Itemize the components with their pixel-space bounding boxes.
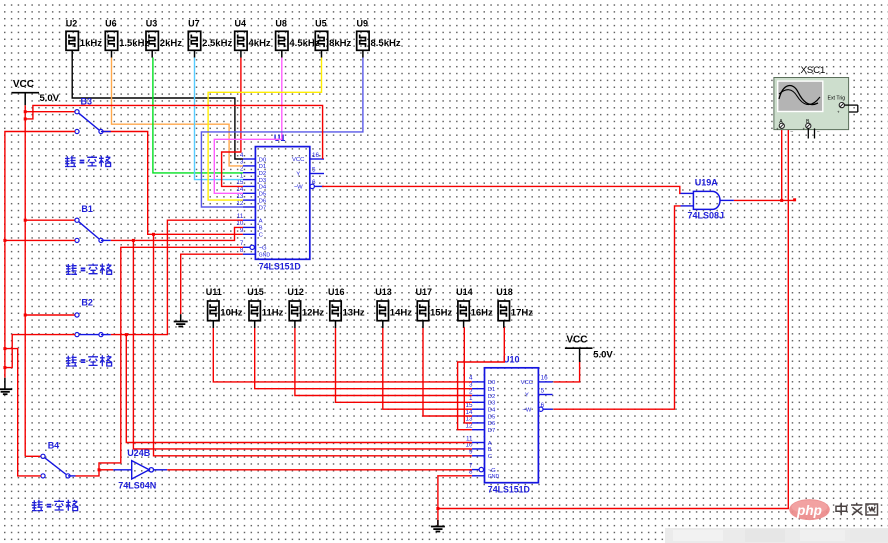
label B1 key bbox=[66, 264, 112, 275]
wire U24B output to U10 ~G bbox=[167, 469, 472, 471]
wire U10 ~W to U19A input B bbox=[554, 206, 681, 409]
wire B1 common to U1 B bbox=[101, 227, 243, 240]
clock source U18 17Hz bbox=[496, 287, 533, 328]
svg-text:D5: D5 bbox=[259, 192, 267, 198]
ground G3 bbox=[431, 520, 445, 532]
svg-text:~G: ~G bbox=[259, 246, 267, 252]
wire B2 to U10 A bbox=[126, 335, 472, 443]
wire VCC to B1 pole bbox=[25, 219, 75, 221]
watermark php logo bbox=[665, 499, 888, 543]
wire U8 to U1 D5 (magenta) bbox=[214, 58, 281, 194]
wire B2 to ground rail bbox=[5, 335, 75, 368]
node junction scope A bbox=[780, 199, 783, 202]
node junction B4-U24B bbox=[98, 468, 101, 471]
svg-text:U11: U11 bbox=[206, 287, 222, 297]
wire VCC to B4 pole bbox=[25, 455, 41, 457]
node junction B1-U10B bbox=[132, 239, 135, 242]
wire U4 to U1 D4 (red) bbox=[222, 58, 243, 187]
svg-text:5.0V: 5.0V bbox=[593, 349, 613, 360]
clock source U15 11Hz bbox=[247, 287, 283, 328]
switch B2 bbox=[75, 297, 103, 336]
node junction B3-U10C bbox=[152, 233, 155, 236]
svg-text:D1: D1 bbox=[488, 387, 496, 393]
wire U19A output to scope A bbox=[734, 199, 795, 201]
svg-text:12Hz: 12Hz bbox=[302, 308, 324, 319]
svg-text:U9: U9 bbox=[357, 18, 369, 28]
svg-text:6: 6 bbox=[312, 179, 316, 186]
svg-text:U15: U15 bbox=[247, 287, 264, 297]
node junction bottom bbox=[436, 507, 439, 510]
svg-text:U8: U8 bbox=[275, 18, 287, 28]
node junction VCC-B1 bbox=[24, 219, 27, 222]
inverter U24B 74LS04N bbox=[113, 448, 167, 490]
svg-text:74LS04N: 74LS04N bbox=[118, 481, 156, 491]
svg-text:5: 5 bbox=[312, 166, 316, 173]
svg-text:GND: GND bbox=[488, 474, 500, 480]
wire U18 to U10 D7 bbox=[458, 328, 505, 430]
svg-text:D0: D0 bbox=[259, 157, 267, 163]
node junction gnd-B1 bbox=[3, 239, 6, 242]
svg-text:17Hz: 17Hz bbox=[511, 308, 533, 319]
svg-text:U10: U10 bbox=[503, 354, 520, 364]
svg-text:16: 16 bbox=[312, 152, 320, 159]
switch B3 bbox=[75, 97, 103, 134]
svg-text:2.5kHz: 2.5kHz bbox=[202, 38, 232, 49]
svg-text:~W: ~W bbox=[522, 407, 531, 413]
clock source U14 16Hz bbox=[456, 287, 493, 328]
svg-text:15Hz: 15Hz bbox=[430, 308, 452, 319]
wire U2 to U1 D0 (black) bbox=[72, 58, 243, 160]
switch B1 bbox=[75, 204, 103, 242]
svg-text:8.5kHz: 8.5kHz bbox=[371, 38, 401, 49]
svg-text:1.5kHz: 1.5kHz bbox=[119, 38, 149, 49]
svg-text:8: 8 bbox=[240, 247, 244, 254]
svg-text:B1: B1 bbox=[81, 204, 93, 214]
svg-text:D0: D0 bbox=[488, 380, 496, 386]
svg-text:A: A bbox=[259, 219, 263, 225]
clock source U5 8kHz bbox=[315, 18, 351, 57]
svg-text:Y: Y bbox=[296, 172, 300, 178]
wire U14 to U10 D6 bbox=[464, 328, 472, 423]
svg-text:XSC1: XSC1 bbox=[801, 65, 826, 76]
svg-text:Y: Y bbox=[525, 393, 529, 399]
wire B2 common to U1 A bbox=[101, 220, 243, 334]
clock source U2 1kHz bbox=[66, 18, 102, 57]
clock source U12 12Hz bbox=[287, 287, 324, 328]
wire U6 to U1 D1 (orange) bbox=[112, 58, 243, 166]
wire U11 to U10 D0 bbox=[213, 328, 472, 382]
svg-text:11: 11 bbox=[237, 213, 244, 220]
svg-text:13Hz: 13Hz bbox=[343, 308, 365, 319]
svg-text:11Hz: 11Hz bbox=[262, 308, 284, 319]
svg-text:74LS08J: 74LS08J bbox=[688, 210, 725, 220]
label B3 key bbox=[65, 156, 111, 167]
svg-text:D7: D7 bbox=[488, 428, 496, 434]
wire U9 to U1 D7 (blue) bbox=[201, 58, 363, 208]
clock source U6 1.5kHz bbox=[105, 18, 149, 57]
wire VCC to B2 pole bbox=[25, 314, 75, 316]
node junction gnd-B4 bbox=[3, 347, 6, 350]
wire B3 ground side bbox=[5, 132, 75, 378]
wire ground rail to B4 bbox=[5, 349, 41, 476]
wire U16 to U10 D3 bbox=[336, 328, 472, 402]
svg-text:B2: B2 bbox=[81, 297, 93, 307]
label B2 key bbox=[66, 355, 112, 366]
svg-text:C: C bbox=[259, 233, 264, 239]
svg-text:+: + bbox=[803, 127, 806, 132]
wire U10 GND to ground bbox=[438, 476, 472, 525]
wire U24B input stub bbox=[99, 469, 113, 471]
svg-text:2kHz: 2kHz bbox=[160, 38, 182, 49]
svg-text:VCC: VCC bbox=[566, 335, 587, 346]
svg-text:16: 16 bbox=[541, 375, 549, 382]
svg-text:U13: U13 bbox=[375, 287, 392, 297]
wire U15 to U10 D1 bbox=[255, 328, 472, 389]
wire B4 to U1 ~G bbox=[99, 247, 243, 469]
svg-text:B: B bbox=[259, 226, 263, 232]
node junction VCC-jog bbox=[24, 117, 27, 120]
wire U12 to U10 D2 bbox=[295, 328, 472, 396]
svg-text:_: _ bbox=[790, 127, 794, 132]
svg-text:5: 5 bbox=[541, 387, 545, 394]
svg-text:D7: D7 bbox=[259, 205, 267, 211]
svg-text:74LS151D: 74LS151D bbox=[488, 484, 530, 494]
svg-text:D4: D4 bbox=[259, 185, 267, 191]
svg-text:U24B: U24B bbox=[127, 448, 151, 458]
power VCC2 5.0V bbox=[565, 335, 614, 362]
svg-text:VCC: VCC bbox=[13, 79, 34, 90]
svg-text:D2: D2 bbox=[259, 171, 267, 177]
wire B1 to ground rail bbox=[5, 239, 75, 241]
node junction VCC-B3 bbox=[24, 110, 27, 113]
wire scope A+ drop bbox=[781, 128, 783, 200]
wire B1 to U10 B bbox=[133, 240, 472, 449]
wire U1 GND to ground bbox=[181, 254, 243, 314]
svg-text:C: C bbox=[488, 454, 493, 460]
op-amp U1 74LS151D multiplexer bbox=[236, 133, 324, 271]
svg-text:D6: D6 bbox=[259, 198, 267, 204]
svg-text:U5: U5 bbox=[315, 18, 327, 28]
svg-text:74LS151D: 74LS151D bbox=[259, 261, 301, 271]
svg-text:8kHz: 8kHz bbox=[329, 38, 351, 49]
svg-text:1kHz: 1kHz bbox=[80, 38, 102, 49]
wire B4 common to inverter bbox=[68, 470, 99, 476]
wire B3 to U10 C bbox=[154, 234, 472, 455]
wire U13 to U10 D4 bbox=[383, 328, 472, 409]
svg-text:5.0V: 5.0V bbox=[40, 93, 60, 104]
svg-text:D3: D3 bbox=[259, 178, 267, 184]
svg-text:9: 9 bbox=[469, 449, 473, 456]
wire U17 to U10 D5 bbox=[423, 328, 472, 416]
svg-text:U4: U4 bbox=[235, 18, 247, 28]
svg-text:U12: U12 bbox=[287, 287, 304, 297]
oscilloscope XSC1 bbox=[774, 65, 858, 139]
clock source U7 2.5kHz bbox=[188, 18, 232, 57]
wire VCC2 to U10 pin16 bbox=[554, 362, 580, 382]
clock source U17 15Hz bbox=[416, 287, 453, 328]
svg-text:D2: D2 bbox=[488, 394, 496, 400]
node junction gnd-B2 bbox=[3, 366, 6, 369]
wire B3 blue stub bbox=[101, 131, 111, 133]
svg-text:D4: D4 bbox=[488, 408, 496, 414]
svg-text:Ext Trig: Ext Trig bbox=[828, 96, 846, 102]
wire U5 to U1 D6 (yellow) bbox=[208, 58, 321, 201]
power VCC1 5.0V bbox=[11, 79, 59, 105]
svg-text:4kHz: 4kHz bbox=[249, 38, 271, 49]
wire VCC1 vertical rail bbox=[24, 105, 26, 456]
svg-text:D3: D3 bbox=[488, 401, 496, 407]
svg-text:~G: ~G bbox=[488, 468, 496, 474]
svg-text:U7: U7 bbox=[188, 18, 200, 28]
svg-text:9: 9 bbox=[240, 227, 244, 234]
label B4 key bbox=[32, 500, 78, 511]
svg-text:_: _ bbox=[816, 127, 820, 132]
svg-text:GND: GND bbox=[259, 253, 271, 259]
wire U7 to U1 D3 (cyan) bbox=[195, 58, 243, 180]
ground G2 bbox=[174, 314, 188, 326]
switch B4 bbox=[41, 440, 70, 478]
node wire end bbox=[793, 198, 796, 201]
svg-text:16Hz: 16Hz bbox=[471, 308, 493, 319]
svg-text:U2: U2 bbox=[66, 18, 78, 28]
svg-text:U1: U1 bbox=[274, 133, 286, 143]
node junction B2-U10A bbox=[125, 333, 128, 336]
svg-text:B: B bbox=[488, 447, 492, 453]
svg-text:D6: D6 bbox=[488, 421, 496, 427]
wire B3 common to U1 C bbox=[103, 132, 243, 235]
clock source U11 10Hz bbox=[206, 287, 243, 328]
svg-text:U6: U6 bbox=[105, 18, 117, 28]
svg-text:VCC: VCC bbox=[521, 380, 534, 386]
clock source U8 4.5kHz bbox=[275, 18, 319, 57]
clock source U9 8.5kHz bbox=[357, 18, 401, 57]
svg-text:10Hz: 10Hz bbox=[220, 308, 242, 319]
clock source U3 2kHz bbox=[146, 18, 182, 57]
svg-text:U17: U17 bbox=[416, 287, 433, 297]
svg-text:B3: B3 bbox=[81, 97, 93, 107]
wire U3 to U1 D2 (green) bbox=[153, 58, 243, 173]
wire VCC to B3 pole bbox=[25, 111, 75, 113]
wire U1 ~W to U19A input A bbox=[322, 186, 681, 193]
svg-text:B4: B4 bbox=[48, 440, 60, 450]
svg-text:U18: U18 bbox=[496, 287, 513, 297]
svg-text:14Hz: 14Hz bbox=[390, 308, 412, 319]
AND gate U19A 74LS08J bbox=[681, 177, 734, 220]
clock source U13 14Hz bbox=[375, 287, 412, 328]
wire VCC1 to U1 pin16 bbox=[25, 105, 322, 159]
svg-text:A: A bbox=[488, 441, 492, 447]
svg-text:12: 12 bbox=[236, 200, 244, 207]
svg-text:6: 6 bbox=[541, 402, 545, 409]
op-amp U10 74LS151D multiplexer bbox=[465, 354, 552, 494]
svg-text:U3: U3 bbox=[146, 18, 158, 28]
svg-text:D1: D1 bbox=[259, 164, 267, 170]
wire scope A- to ground net bbox=[438, 128, 788, 508]
svg-text:~W: ~W bbox=[294, 185, 303, 191]
clock source U16 13Hz bbox=[328, 287, 365, 328]
svg-text:U14: U14 bbox=[456, 287, 473, 297]
svg-text:D5: D5 bbox=[488, 414, 496, 420]
svg-text:U19A: U19A bbox=[695, 177, 719, 187]
svg-text:+: + bbox=[776, 127, 779, 132]
svg-text:U16: U16 bbox=[328, 287, 345, 297]
svg-text:php: php bbox=[796, 503, 822, 518]
ground G1 bbox=[0, 378, 12, 394]
svg-text:+: + bbox=[837, 110, 840, 115]
svg-text:VCC: VCC bbox=[292, 157, 305, 163]
node junction VCC-B2 bbox=[24, 314, 27, 317]
clock source U4 4kHz bbox=[235, 18, 271, 57]
